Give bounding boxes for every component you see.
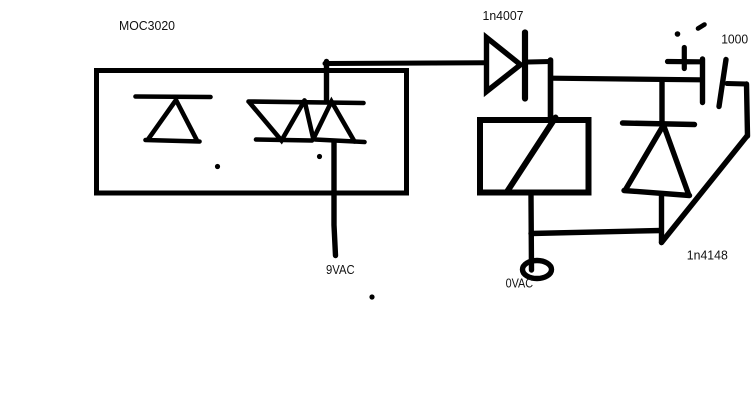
capacitor C1 plate left xyxy=(700,59,705,103)
triac T1 right triangle xyxy=(314,102,355,142)
dash mark above capacitor xyxy=(698,25,705,29)
svg-text:MOC3020: MOC3020 xyxy=(119,19,175,33)
diode D2 cathode bar xyxy=(522,33,528,99)
svg-text:1000: 1000 xyxy=(721,33,748,47)
wire right corner down xyxy=(747,84,748,136)
dot below box xyxy=(369,294,374,299)
diode D2 1n4007 triangle xyxy=(487,38,521,92)
svg-text:1n4007: 1n4007 xyxy=(483,9,524,23)
wire cap junction down to diode D3 xyxy=(659,82,664,123)
wire top rail to diode xyxy=(325,60,486,66)
dot above plus xyxy=(675,31,681,37)
wire relay bottom to 0VAC terminal xyxy=(528,195,534,270)
relay K1 box xyxy=(480,120,589,193)
triac T1 middle line xyxy=(305,101,314,138)
wire triac gate to top rail xyxy=(324,62,329,102)
LED D1 cathode bar xyxy=(136,94,211,99)
op-to box U1 MOC3020 xyxy=(97,71,407,194)
diode D3 1n4148 cathode bar xyxy=(623,123,695,125)
triac T1 bottom bar right xyxy=(315,140,365,143)
wire corner down to relay xyxy=(548,60,554,120)
dot inside box right xyxy=(317,154,322,159)
svg-text:1n4148: 1n4148 xyxy=(687,249,728,263)
terminal circle 0VAC xyxy=(523,261,552,279)
triac T1 bottom bar left (MT1) xyxy=(256,140,312,141)
capacitor C1 plate right xyxy=(719,60,726,107)
diode D3 1n4148 triangle xyxy=(624,125,690,196)
wire diode D3 down to bottom rail xyxy=(659,196,664,243)
triac T1 left triangle xyxy=(250,101,305,141)
capacitor C1 plus sign xyxy=(668,48,702,69)
wire corner right to capacitor xyxy=(552,78,700,80)
LED D1 triangle xyxy=(146,100,200,142)
wire triac MT1 down to 9VAC xyxy=(334,142,336,256)
wire capacitor to right corner xyxy=(727,81,746,87)
svg-text:9VAC: 9VAC xyxy=(326,263,355,277)
dot inside box left xyxy=(215,164,220,169)
svg-text:0VAC: 0VAC xyxy=(506,277,533,291)
wire bottom rail relay to diode xyxy=(531,231,661,234)
relay K1 diagonal xyxy=(507,118,556,193)
wire diode to corner xyxy=(528,59,551,65)
triac T1 top bar (MT2) xyxy=(249,102,364,104)
wire diagonal right corner to bottom rail xyxy=(662,136,748,243)
